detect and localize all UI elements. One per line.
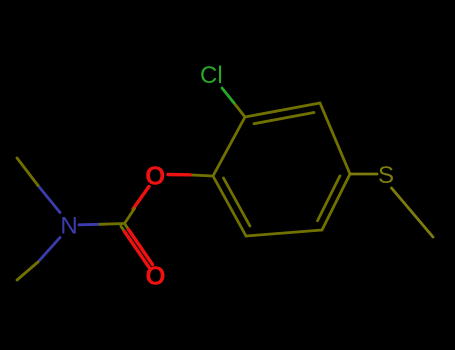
bond O-C1 carbon half (188, 175, 213, 176)
wire C2-C3 (245, 103, 320, 117)
wire C3-C4 (320, 103, 350, 174)
svg-text:O: O (145, 261, 165, 291)
bond C4-S (350, 173, 377, 176)
bond N-CH3 upper nitrogen half (38, 186, 60, 213)
bond S-CH3 (392, 188, 434, 237)
bond esterO-C carbon half (125, 208, 135, 223)
bond C2-Cl carbon half (234, 103, 245, 117)
wire C4-C5 (322, 174, 350, 230)
svg-text:S: S (378, 162, 394, 189)
double bond C=O second oxygen half (124, 232, 148, 268)
wire C5-C6 (246, 230, 322, 236)
bond N-C nitrogen half (79, 223, 100, 226)
bond N-C carbon half (100, 222, 125, 226)
double bond C=O main carbon half (125, 224, 129, 230)
wire C6-C1 (213, 176, 246, 236)
svg-text:O: O (145, 161, 165, 191)
svg-text:Cl: Cl (200, 62, 223, 89)
bond O-C1 oxygen half (168, 173, 190, 177)
double bond inner C4=C5 (318, 176, 340, 221)
double bond inner C6=C1 (224, 178, 250, 226)
wire C1-C2 (213, 117, 245, 176)
double bond C=O main oxygen half (129, 230, 153, 265)
svg-text:N: N (60, 213, 77, 240)
bond N-CH3 lower carbon half (17, 262, 38, 280)
bond N-CH3 lower nitrogen half (38, 238, 60, 263)
double bond inner C2=C3 (254, 113, 314, 124)
bond esterO-C carbonyl oxygen half (133, 187, 149, 210)
double bond C=O second carbon half (121, 226, 125, 231)
bond C2-Cl chlorine half (222, 88, 234, 103)
bond N-CH3 upper carbon half (17, 158, 38, 186)
